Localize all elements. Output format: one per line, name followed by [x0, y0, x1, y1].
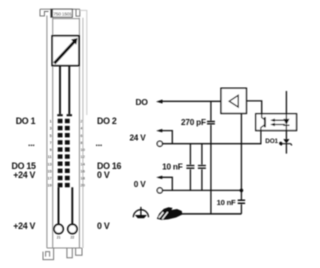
DIN rail foot left bracket: [43, 248, 54, 260]
0V stub wire: [161, 177, 172, 190]
module shoulder line: [53, 18, 80, 20]
filter line to earth rail: [210, 125, 212, 214]
wire to output terminal: [285, 144, 287, 154]
svg-text:10 nF: 10 nF: [217, 198, 236, 207]
terminal circle 24V: [157, 141, 162, 146]
svg-text:5: 5: [50, 133, 53, 138]
svg-text:10: 10: [80, 147, 85, 152]
driver box U2: [221, 88, 246, 113]
electronics box U1: [52, 36, 79, 66]
capacitor C2 10 nF: [189, 144, 191, 191]
svg-text:11: 11: [48, 154, 53, 159]
svg-text:12: 12: [80, 154, 85, 159]
module marking label left hook: [40, 9, 49, 16]
24V stub wire: [161, 131, 172, 144]
hand symbol field side: [157, 207, 183, 220]
svg-text:17: 17: [47, 176, 52, 181]
driver triangle: [229, 95, 238, 107]
capacitor C1 270 pF plates: [207, 122, 215, 124]
svg-text:21: 21: [57, 236, 61, 240]
svg-text:19: 19: [47, 183, 52, 188]
module marking label box 750-1501: [51, 9, 72, 17]
DIN rail foot notch 2: [76, 248, 82, 255]
wire to power contact +24V: [58, 187, 60, 224]
svg-text:...: ...: [96, 138, 103, 148]
svg-text:+24 V: +24 V: [13, 170, 35, 180]
svg-text:15: 15: [47, 168, 52, 173]
capacitor C1 270 pF line: [210, 101, 212, 120]
svg-text:0 V: 0 V: [97, 221, 110, 231]
svg-text:1: 1: [50, 119, 53, 124]
svg-text:0 V: 0 V: [134, 180, 146, 189]
module bottom edge: [47, 247, 82, 249]
capacitor C4 10 nF plates: [238, 200, 245, 203]
module terminal strip left edge: [52, 18, 54, 248]
driver ground wire: [240, 113, 242, 213]
svg-text:22: 22: [71, 236, 75, 240]
wire to power contact 0V: [71, 187, 73, 224]
terminal pin numbers right: [80, 119, 85, 188]
24V stub tick: [156, 129, 162, 133]
functional earth symbol: [133, 210, 148, 218]
svg-text:14: 14: [80, 161, 85, 166]
suppressor diode D1: [283, 139, 289, 143]
0V stub tick: [156, 176, 162, 180]
terminal circle 0V: [157, 188, 162, 193]
0V rail: [162, 189, 241, 191]
contact T-bar 2: [67, 114, 72, 116]
svg-text:16: 16: [80, 168, 85, 173]
svg-text:13: 13: [47, 161, 52, 166]
DO input arrowhead: [156, 100, 163, 104]
optocoupler LED wire top: [285, 91, 287, 119]
contact T-bar 1: [57, 114, 62, 116]
svg-text:24 V: 24 V: [129, 134, 146, 143]
driver output wire to optocoupler: [246, 101, 261, 114]
terminal pin numbers left: [47, 119, 52, 188]
DO wire to driver: [161, 100, 221, 102]
optocoupler phototransistor: [262, 114, 265, 120]
svg-text:DO 2: DO 2: [97, 116, 117, 126]
wire from electronics to contact 2: [68, 66, 70, 115]
module marking label top line: [40, 8, 80, 10]
power jumper contact +24V: [54, 224, 63, 233]
module right edge: [82, 18, 84, 248]
phototransistor emitter wire to 24V rail: [260, 131, 262, 145]
24V rail: [162, 143, 261, 145]
svg-text:+24 V: +24 V: [13, 221, 35, 231]
svg-text:20: 20: [80, 183, 85, 188]
LED output wire: [285, 125, 287, 139]
capacitor C3 10 nF: [201, 144, 203, 191]
optocoupler box U3: [256, 114, 297, 131]
module left edge: [46, 16, 48, 249]
svg-text:9: 9: [50, 147, 53, 152]
wire from electronics to contact 1: [59, 66, 61, 115]
earth rail: [181, 213, 241, 215]
electronics diagonal symbol: [54, 42, 74, 64]
svg-text:0 V: 0 V: [97, 170, 110, 180]
svg-text:DO: DO: [136, 97, 149, 107]
terminal contact grid: [58, 119, 70, 187]
svg-text:3: 3: [50, 126, 53, 131]
optocoupler light arrows: [274, 120, 285, 124]
svg-text:750 1501: 750 1501: [53, 11, 72, 16]
svg-text:10 nF: 10 nF: [162, 163, 183, 172]
svg-text:7: 7: [50, 140, 53, 145]
power jumper contact 0V: [68, 224, 77, 233]
adjacent module outline line: [80, 10, 87, 115]
DIN rail foot notch 1: [67, 248, 72, 258]
svg-text:270 pF: 270 pF: [181, 118, 206, 127]
svg-text:...: ...: [28, 138, 35, 148]
svg-text:DO 1: DO 1: [16, 116, 36, 126]
junction dot DO1: [279, 142, 282, 145]
optocoupler LED: [283, 119, 289, 125]
module marking label right hook: [76, 9, 80, 16]
junction dot 0V rail: [240, 189, 244, 193]
svg-text:DO1: DO1: [265, 138, 278, 145]
svg-text:18: 18: [80, 176, 85, 181]
module terminal strip right edge: [78, 18, 80, 248]
